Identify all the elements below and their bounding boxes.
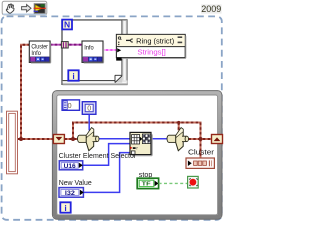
right shift register [212,135,223,144]
svg-text:TF: TF [142,182,152,188]
blue wire: node to right funnel [151,138,169,140]
blue wire: U16 to node index input [83,144,131,166]
Cluster Info VI [29,41,50,63]
svg-text:Info: Info [84,46,94,52]
2009 version text [201,4,222,14]
junction dot at cluster constant branch [19,137,23,141]
loop condition terminal [188,176,199,188]
blue wire: left funnel to Replace Array Subset [99,138,131,140]
wire: purple array wire Cluster Info to Info through tunnel [50,44,82,46]
svg-text:Ring (strict): Ring (strict) [136,37,174,46]
svg-text:Info: Info [31,51,41,57]
svg-text:Strings[]: Strings[] [137,47,166,56]
snippet dashed border [2,16,222,219]
svg-text:i: i [72,71,74,81]
junction dot type branch [177,121,180,124]
toolbar VI icon [34,4,46,14]
svg-text:0: 0 [87,104,91,113]
Cluster indicator terminal [186,158,214,168]
right funnel (array to cluster) [167,128,189,151]
N box [62,20,72,30]
U16 control terminal [59,161,83,170]
svg-text:2009: 2009 [201,4,221,14]
for loop fold corner [115,75,122,82]
toolbar arrow icon [22,5,31,12]
i box (while loop) [60,202,70,213]
cluster constant (tall) [7,111,18,174]
wire: left SR to left funnel with top bypass branch [65,123,201,140]
tunnel on for loop border [61,42,68,48]
wire: vertical branch to Cluster Info [21,45,30,139]
numeric constant 0 (left) [62,100,79,110]
left shift register [53,135,64,144]
svg-text:i: i [64,203,66,213]
i box (for loop) [68,70,78,81]
property node Ring (strict) [116,34,186,60]
left funnel (cluster to array) [78,128,100,151]
toolbar [2,1,47,15]
wire: cluster constant to while shift register (brown cluster wire) [18,138,54,140]
svg-text:N: N [64,20,70,30]
toolbar hand icon [6,4,14,13]
svg-text:New Value: New Value [59,180,92,187]
Info VI [82,41,104,63]
wire: pink wire Info to property node [102,49,118,51]
svg-text:Cluster: Cluster [188,150,215,157]
svg-text:Cluster Element Selector: Cluster Element Selector [59,153,137,160]
svg-text:Cluster: Cluster [31,44,48,50]
junction dot left [71,137,75,141]
svg-text:U16: U16 [64,163,77,170]
svg-text:I32: I32 [65,190,76,197]
wire: green boolean dashed [159,182,188,184]
while loop [52,91,222,220]
wire: right funnel to right SR and cluster indicator [189,139,212,158]
junction dot right [199,137,203,141]
Replace Array Subset node [130,132,152,155]
wire: blue from cluster 0 constant down to left funnel [88,114,90,130]
svg-text:0: 0 [67,101,71,110]
stop boolean terminal [137,178,158,188]
I32 control terminal [59,188,84,198]
blue wire: I32 to node element input [84,153,131,193]
cluster constant 0 (right) [82,102,96,115]
for loop [62,20,128,86]
